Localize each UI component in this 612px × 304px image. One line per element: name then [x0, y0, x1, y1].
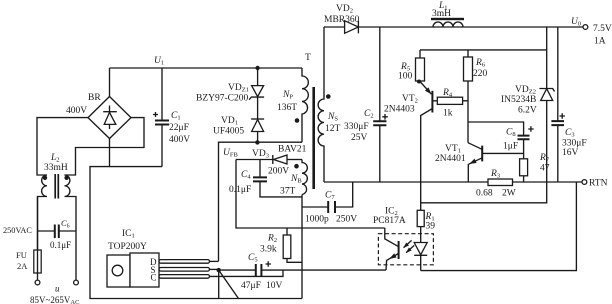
diode VD2 — [324, 4, 360, 33]
svg-text:IN5234B: IN5234B — [501, 95, 536, 105]
zener diode VDZ1 — [196, 68, 264, 119]
svg-text:2N4403: 2N4403 — [384, 105, 415, 115]
wire drain line — [219, 142, 303, 261]
node S junction — [217, 268, 221, 272]
node U0 output terminal — [571, 17, 612, 47]
wire BR bottom riser — [109, 139, 111, 167]
svg-text:250VAC: 250VAC — [3, 226, 32, 235]
resistor R3 — [476, 169, 516, 199]
pin D wire — [210, 260, 219, 262]
node RTN terminal — [582, 179, 608, 189]
wire secondary ground rail RTN — [324, 181, 582, 183]
svg-text:1μF: 1μF — [503, 142, 518, 152]
wire collector node to C8 — [468, 122, 524, 136]
pin S wire — [210, 268, 219, 270]
svg-text:16V: 16V — [562, 148, 579, 158]
wire secondary top rail — [324, 26, 583, 28]
svg-text:u: u — [55, 284, 60, 294]
diode VD1 — [213, 116, 264, 142]
wire U1 top rail — [110, 67, 303, 69]
svg-text:PC817A: PC817A — [373, 216, 406, 226]
svg-text:220: 220 — [473, 69, 488, 79]
zener diode VDZ2 — [421, 27, 555, 203]
svg-text:0.68: 0.68 — [476, 189, 493, 199]
svg-text:3mH: 3mH — [432, 9, 451, 19]
resistor R7 — [520, 153, 550, 182]
svg-text:100: 100 — [398, 72, 413, 82]
svg-text:1000p: 1000p — [305, 215, 329, 225]
svg-text:0.1μF: 0.1μF — [50, 240, 71, 250]
resistor R1 — [417, 210, 435, 231]
svg-text:MBR360: MBR360 — [324, 15, 360, 25]
wire BR top riser — [109, 68, 111, 97]
transistor VT2 — [384, 80, 433, 211]
wire primary ground left leg — [90, 167, 302, 299]
svg-text:200V: 200V — [268, 167, 289, 177]
svg-text:39: 39 — [426, 222, 436, 232]
svg-text:47μF: 47μF — [241, 281, 261, 291]
resistor R2 — [260, 228, 302, 262]
svg-text:BR: BR — [88, 93, 101, 103]
optocoupler IC2 PC817A — [373, 207, 433, 271]
resistor R4 — [432, 88, 468, 119]
svg-text:330μF: 330μF — [562, 139, 587, 149]
wire AC1 left leg — [37, 118, 88, 175]
capacitor C4 — [229, 160, 302, 197]
capacitor C6 — [3, 218, 76, 250]
resistor R6 — [464, 50, 488, 143]
svg-text:6.2V: 6.2V — [518, 106, 537, 116]
svg-text:400V: 400V — [169, 135, 190, 145]
wire bias node column — [301, 195, 303, 299]
svg-text:10V: 10V — [266, 281, 283, 291]
svg-text:330μF: 330μF — [344, 122, 369, 132]
svg-text:2N4401: 2N4401 — [435, 154, 466, 164]
svg-text:2A: 2A — [17, 261, 28, 271]
fuse FU — [16, 197, 41, 281]
wire AC2 right leg — [65, 118, 145, 175]
node clamp junction top — [255, 66, 259, 70]
wire S to ground diagonal — [219, 270, 239, 298]
transformer T — [305, 53, 314, 189]
capacitor C7 — [302, 182, 357, 225]
svg-text:BAV21: BAV21 — [278, 145, 307, 155]
svg-text:C: C — [151, 273, 157, 283]
svg-text:1k: 1k — [443, 109, 453, 119]
diode VD3 — [236, 145, 307, 177]
wire R5 R6 feed line — [420, 49, 547, 51]
svg-text:7.5V: 7.5V — [593, 24, 612, 34]
svg-text:FU: FU — [16, 250, 27, 260]
svg-text:136T: 136T — [277, 103, 297, 113]
svg-text:UF4005: UF4005 — [213, 127, 244, 137]
svg-text:3.9k: 3.9k — [260, 245, 277, 255]
svg-text:47: 47 — [540, 164, 550, 174]
svg-text:2W: 2W — [502, 189, 516, 199]
pin C wire — [210, 270, 284, 276]
capacitor C2 — [344, 27, 388, 182]
inductor L1 — [431, 1, 464, 27]
node u input terminals — [30, 280, 79, 304]
bridge rectifier BR — [66, 93, 131, 139]
wire LED return — [421, 182, 577, 271]
resistor R5 — [398, 50, 425, 82]
svg-text:BZY97-C200: BZY97-C200 — [196, 94, 249, 104]
svg-text:12T: 12T — [325, 124, 341, 134]
svg-text:37T: 37T — [280, 187, 296, 197]
capacitor C5 — [219, 253, 386, 291]
svg-text:400V: 400V — [66, 106, 87, 116]
capacitor C8 — [503, 126, 534, 159]
winding NS secondary — [318, 27, 340, 182]
svg-text:250V: 250V — [336, 215, 357, 225]
svg-text:1A: 1A — [594, 37, 606, 47]
capacitor C3 — [551, 27, 586, 182]
svg-text:25V: 25V — [351, 133, 368, 143]
capacitor C1 — [153, 68, 190, 167]
svg-text:T: T — [305, 53, 311, 63]
winding NB bias — [280, 160, 307, 197]
transistor VT1 — [435, 143, 524, 182]
node clamp junction bottom — [255, 140, 259, 144]
wire UFB feedback loop — [236, 160, 385, 229]
svg-text:0.1μF: 0.1μF — [229, 185, 251, 195]
inductor L2 common-mode choke — [38, 153, 77, 280]
IC IC1 TOP200Y package — [107, 229, 210, 287]
svg-text:33mH: 33mH — [44, 163, 68, 173]
winding NP primary — [277, 68, 308, 142]
svg-text:TOP200Y: TOP200Y — [108, 242, 147, 252]
svg-text:RTN: RTN — [589, 179, 608, 189]
svg-text:22μF: 22μF — [169, 123, 189, 133]
